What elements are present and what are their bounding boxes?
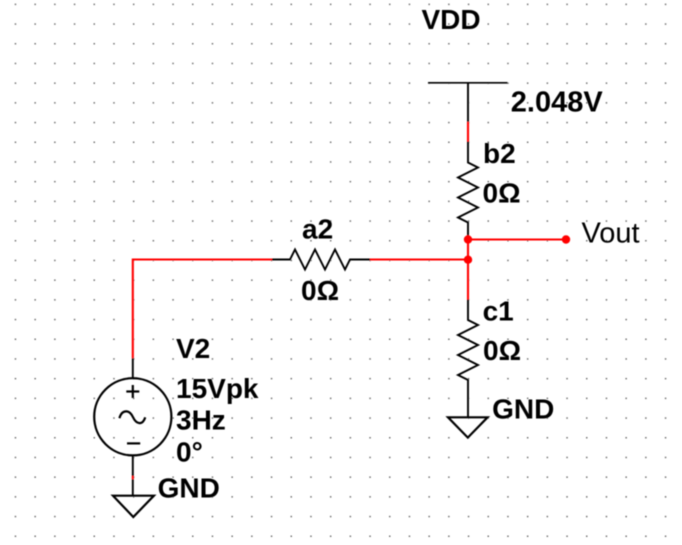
svg-text:2.048V: 2.048V [511,87,604,119]
svg-text:V2: V2 [176,333,210,364]
svg-text:c1: c1 [483,295,514,326]
svg-text:b2: b2 [483,138,516,169]
svg-text:0Ω: 0Ω [301,275,339,306]
svg-text:15Vpk: 15Vpk [176,373,259,404]
svg-text:Vout: Vout [582,217,640,249]
svg-text:GND: GND [492,394,554,425]
svg-text:VDD: VDD [422,4,481,35]
svg-text:0Ω: 0Ω [483,178,521,209]
svg-text:a2: a2 [302,214,333,245]
svg-text:0Ω: 0Ω [483,335,521,366]
svg-text:GND: GND [158,473,220,504]
svg-text:0°: 0° [176,436,203,467]
svg-text:3Hz: 3Hz [176,404,226,435]
